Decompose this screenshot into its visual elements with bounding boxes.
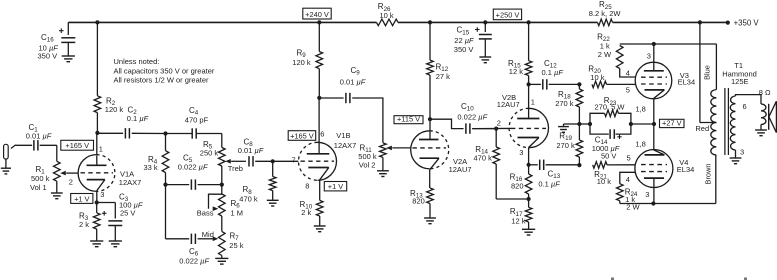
svg-text:Treb: Treb xyxy=(228,164,243,173)
wire V4 plate row xyxy=(620,203,716,205)
svg-text:Mid: Mid xyxy=(202,230,214,239)
wire V1A plate to node xyxy=(96,133,98,155)
label Blue xyxy=(702,65,711,80)
ground R10 xyxy=(314,226,326,232)
resistor R16 xyxy=(510,165,532,199)
svg-text:3: 3 xyxy=(647,52,651,61)
wire V1A cathode node xyxy=(97,202,116,204)
node R23 C14 right xyxy=(629,122,633,126)
capacitor C5 xyxy=(166,154,222,190)
svg-text:0.022 µF: 0.022 µF xyxy=(457,112,487,121)
wire C8 to V1B grid xyxy=(255,160,298,162)
capacitor C2 xyxy=(97,106,148,139)
capacitor C14 xyxy=(590,124,631,161)
wire cathode node xyxy=(631,123,654,125)
wire C16 to rail xyxy=(67,22,69,35)
svg-text:125E: 125E xyxy=(731,77,749,86)
svg-text:EL34: EL34 xyxy=(678,78,696,87)
resistor R26 xyxy=(377,2,399,26)
svg-text:12AX7: 12AX7 xyxy=(119,178,142,187)
svg-text:3: 3 xyxy=(740,148,744,157)
resistor R25 xyxy=(589,0,622,26)
svg-text:2 k: 2 k xyxy=(79,220,89,229)
svg-text:1: 1 xyxy=(99,145,103,154)
node V2B grid xyxy=(494,127,498,131)
wire R14 bottom to cathode divider xyxy=(496,198,528,200)
svg-text:+165 V: +165 V xyxy=(290,131,314,140)
node V3 plate junction xyxy=(652,42,656,46)
node +350 V terminal xyxy=(726,18,760,27)
node +165 V label V1A xyxy=(61,140,94,150)
svg-text:12 k: 12 k xyxy=(511,217,525,226)
svg-text:8: 8 xyxy=(305,182,309,191)
wire V2B grid xyxy=(472,127,511,129)
node V2A plate xyxy=(428,117,432,121)
wire R1 wiper to V1A grid xyxy=(66,172,78,174)
svg-text:5: 5 xyxy=(626,86,630,95)
svg-text:12AX7: 12AX7 xyxy=(334,141,357,150)
resistor R14 xyxy=(474,129,500,199)
input jack xyxy=(4,144,16,168)
resistor R19 xyxy=(556,124,582,165)
svg-text:+240 V: +240 V xyxy=(305,10,329,19)
ground input jack xyxy=(1,168,11,174)
svg-text:25 k: 25 k xyxy=(229,241,243,250)
svg-text:Vol 1: Vol 1 xyxy=(30,183,47,192)
svg-text:270 k: 270 k xyxy=(556,141,575,150)
capacitor C6 xyxy=(166,185,214,266)
svg-text:2 W: 2 W xyxy=(598,50,612,59)
tube V4 EL34 xyxy=(626,150,695,204)
svg-text:+250 V: +250 V xyxy=(496,11,520,20)
node V4 plate junction xyxy=(651,201,655,205)
svg-text:12AU7: 12AU7 xyxy=(449,165,472,174)
resistor R17 xyxy=(510,199,532,229)
node rail junction at R9 xyxy=(317,20,321,24)
capacitor C13 xyxy=(529,160,580,189)
svg-text:0.01 µF: 0.01 µF xyxy=(26,132,52,141)
resistor R15 xyxy=(508,22,532,84)
label Red xyxy=(695,124,709,133)
node V2B cathode xyxy=(527,163,531,167)
svg-text:Vol 2: Vol 2 xyxy=(359,160,376,169)
wire V3 plate row xyxy=(620,43,717,45)
wire input to C1 xyxy=(15,144,32,146)
potentiometer R11 Vol 2 xyxy=(358,143,392,171)
node +250 V label xyxy=(493,9,521,20)
ground R8 xyxy=(267,200,279,206)
capacitor C12 xyxy=(529,59,580,90)
svg-text:12AU7: 12AU7 xyxy=(497,100,520,109)
speaker magnet symbol xyxy=(769,101,777,132)
node V1A plate xyxy=(95,131,99,135)
svg-text:350 V: 350 V xyxy=(454,45,474,54)
capacitor C10 xyxy=(430,102,496,134)
node C5 left xyxy=(163,183,167,187)
svg-text:0.1 µF: 0.1 µF xyxy=(542,68,564,77)
svg-text:2 k: 2 k xyxy=(301,208,311,217)
svg-text:10 k: 10 k xyxy=(380,11,394,20)
tube V1B 12AX7 xyxy=(292,130,357,201)
transformer T1 primary upper xyxy=(711,90,717,123)
wire brown lead xyxy=(715,155,717,204)
svg-text:1,8: 1,8 xyxy=(635,105,645,114)
wire R11 wiper to V2A grid xyxy=(392,147,411,149)
wire C9 to R11 xyxy=(352,98,383,143)
svg-text:25 V: 25 V xyxy=(120,209,135,218)
wire secondary top to speaker xyxy=(736,95,762,104)
svg-text:0.01 µF: 0.01 µF xyxy=(340,78,366,87)
svg-text:+1 V: +1 V xyxy=(328,182,343,191)
svg-text:10 k: 10 k xyxy=(597,177,611,186)
node 1,8 label V4 xyxy=(635,140,645,149)
wire R6 to R7 xyxy=(221,216,223,231)
ground C15 xyxy=(479,57,491,63)
node rail junction at C15 xyxy=(483,20,487,24)
ground R11 xyxy=(377,171,389,177)
svg-text:50 V: 50 V xyxy=(601,152,616,161)
resistor R2 xyxy=(94,22,123,132)
ground C3 xyxy=(109,241,122,247)
svg-text:4: 4 xyxy=(626,69,630,78)
svg-text:0.01 µF: 0.01 µF xyxy=(238,146,264,155)
ground C16 xyxy=(62,56,75,62)
svg-text:470 pF: 470 pF xyxy=(185,116,209,125)
ground R17 xyxy=(522,229,535,235)
wire voice coil to ground xyxy=(760,125,762,130)
wire bias node to ground xyxy=(564,124,580,126)
svg-text:1,8: 1,8 xyxy=(635,140,645,149)
wire EL34 cathode column xyxy=(653,98,655,150)
tube V2A 12AU7 xyxy=(411,119,472,188)
resistor R21 xyxy=(593,162,636,187)
transformer T1 secondary xyxy=(730,96,735,150)
svg-text:470 k: 470 k xyxy=(474,153,493,162)
node rail junction at R15 xyxy=(527,20,531,24)
node rail junction at R2 xyxy=(95,20,99,24)
node EL34 cathodes xyxy=(652,122,656,126)
svg-text:250 k: 250 k xyxy=(200,149,219,158)
svg-text:Brown: Brown xyxy=(704,164,713,185)
potentiometer R6 bass xyxy=(197,185,243,218)
ground R3 xyxy=(90,241,103,247)
transformer T1 core xyxy=(725,88,729,155)
tube V2B 12AU7 xyxy=(497,84,549,164)
wire bias node to R23 C14 xyxy=(579,123,590,125)
transformer T1 primary lower xyxy=(711,123,717,156)
svg-text:+1 V: +1 V xyxy=(74,194,89,203)
svg-text:6: 6 xyxy=(743,102,747,111)
resistor R4 xyxy=(144,134,169,185)
node rail junction at transformer B+ xyxy=(698,20,702,24)
svg-text:3: 3 xyxy=(100,190,104,199)
svg-text:27 k: 27 k xyxy=(436,72,450,81)
node V2B plate xyxy=(527,82,531,86)
svg-text:V1B: V1B xyxy=(336,131,350,140)
svg-text:0.1 µF: 0.1 µF xyxy=(538,179,560,188)
svg-text:+350 V: +350 V xyxy=(734,18,760,27)
node tone stack top xyxy=(163,131,167,135)
node +240 V label xyxy=(303,8,331,19)
note text xyxy=(114,57,215,85)
node R8 top xyxy=(271,159,275,163)
wire secondary bottom xyxy=(735,150,737,158)
svg-text:All resistors 1/2 W or greater: All resistors 1/2 W or greater xyxy=(114,76,210,85)
label 8 ohm xyxy=(759,88,771,97)
resistor R3 xyxy=(79,203,100,241)
ground R1 xyxy=(51,193,63,199)
speaker voice coil xyxy=(761,104,766,125)
resistor R22 xyxy=(597,33,635,78)
svg-text:1 M: 1 M xyxy=(231,209,244,218)
resistor R23 xyxy=(590,96,631,124)
potentiometer R7 mid xyxy=(202,230,244,258)
resistor R18 xyxy=(555,84,583,124)
svg-text:350 V: 350 V xyxy=(38,52,58,61)
wire treble wiper to C8 xyxy=(231,160,246,162)
svg-text:+165 V: +165 V xyxy=(65,141,89,150)
potentiometer R5 treble xyxy=(200,140,243,173)
node R23 C14 left xyxy=(588,122,592,126)
svg-text:22 µF: 22 µF xyxy=(454,36,474,45)
svg-text:6: 6 xyxy=(320,130,324,139)
svg-text:3: 3 xyxy=(519,148,523,157)
svg-text:8 Ω: 8 Ω xyxy=(759,88,771,97)
svg-text:2: 2 xyxy=(69,178,73,187)
wire C1 to R1 xyxy=(40,145,57,161)
ground speaker xyxy=(755,130,767,136)
potentiometer R1 Vol 1 xyxy=(30,161,66,192)
svg-text:Red: Red xyxy=(695,124,709,133)
label Brown xyxy=(704,164,713,185)
svg-text:12 k: 12 k xyxy=(509,67,523,76)
svg-text:1 k: 1 k xyxy=(600,41,610,50)
node C5 right xyxy=(220,183,224,187)
svg-text:33 k: 33 k xyxy=(144,163,158,172)
node +1 V label V1B xyxy=(324,182,346,191)
svg-text:8.2 k, 2W: 8.2 k, 2W xyxy=(589,9,622,18)
svg-text:270, 5 W: 270, 5 W xyxy=(595,103,626,112)
svg-text:0.022 µF: 0.022 µF xyxy=(179,257,209,266)
tube V3 EL34 xyxy=(626,44,695,99)
resistor R12 xyxy=(427,22,450,119)
svg-text:270 k: 270 k xyxy=(555,99,574,108)
ground T1 secondary xyxy=(730,158,742,164)
capacitor C16 xyxy=(38,28,76,60)
wire B+ top rail xyxy=(68,21,728,23)
svg-text:Unless noted:: Unless noted: xyxy=(114,57,160,66)
label T1 pin 6 xyxy=(743,102,747,111)
wire R9 node to V1B plate xyxy=(318,98,320,143)
capacitor C8 xyxy=(238,138,264,167)
svg-text:Bass: Bass xyxy=(197,208,214,217)
node V1B plate xyxy=(317,96,321,100)
ground bias network xyxy=(558,127,569,133)
node +115 V label xyxy=(394,115,423,124)
capacitor C3 xyxy=(102,193,143,241)
svg-text:7: 7 xyxy=(292,156,296,165)
svg-text:EL34: EL34 xyxy=(677,165,695,174)
wire C4 to treble pot xyxy=(197,134,222,148)
resistor R8 xyxy=(239,161,276,203)
node R18 top xyxy=(577,82,581,86)
svg-text:5: 5 xyxy=(627,154,631,163)
capacitor C4 xyxy=(166,106,209,139)
node +27 V label xyxy=(660,119,685,128)
svg-text:0.022 µF: 0.022 µF xyxy=(178,163,208,172)
svg-text:2: 2 xyxy=(497,119,501,128)
ground R7 xyxy=(215,258,228,264)
resistor R10 xyxy=(300,200,324,226)
svg-text:820: 820 xyxy=(412,197,425,206)
svg-text:470 k: 470 k xyxy=(239,194,258,203)
svg-text:120 k: 120 k xyxy=(292,58,311,67)
resistor R24 xyxy=(617,172,641,211)
svg-text:All capacitors 350 V or greate: All capacitors 350 V or greater xyxy=(114,67,215,76)
node bias ground node xyxy=(577,122,581,126)
wire blue lead xyxy=(715,44,717,90)
wire speck xyxy=(611,278,747,280)
label T1 xyxy=(722,61,757,86)
capacitor C15 xyxy=(454,22,492,56)
node +1 V label V1A xyxy=(71,194,93,204)
svg-text:10 k: 10 k xyxy=(590,73,604,82)
svg-text:+115 V: +115 V xyxy=(397,115,420,124)
capacitor C9 xyxy=(319,66,366,103)
node +165 V label V1B xyxy=(288,131,316,141)
node rail junction at R12 xyxy=(428,20,432,24)
svg-text:0.1 µF: 0.1 µF xyxy=(127,114,149,123)
node R19 bottom xyxy=(577,163,581,167)
wire C2 to tone node xyxy=(132,132,166,134)
svg-text:3: 3 xyxy=(645,190,649,199)
resistor R13 xyxy=(410,188,433,218)
svg-text:+27 V: +27 V xyxy=(662,119,682,128)
capacitor C1 xyxy=(26,123,52,151)
wire R5 bottom xyxy=(221,166,223,185)
svg-text:120 k: 120 k xyxy=(105,105,124,114)
resistor R9 xyxy=(292,22,322,98)
tube V1A 12AX7 xyxy=(69,145,142,203)
node 1,8 label V3 xyxy=(635,105,645,114)
label T1 pin 3 secondary xyxy=(740,148,744,157)
resistor R20 xyxy=(588,65,635,88)
node V1A cathode xyxy=(95,200,99,204)
svg-text:4: 4 xyxy=(626,175,630,184)
svg-text:Blue: Blue xyxy=(702,65,711,80)
wire red B+ lead xyxy=(700,22,717,122)
ground R13 xyxy=(424,218,436,224)
svg-text:500 k: 500 k xyxy=(31,174,50,183)
node R16 R17 junction xyxy=(527,197,531,201)
svg-text:820: 820 xyxy=(511,181,524,190)
svg-text:1: 1 xyxy=(531,98,535,107)
